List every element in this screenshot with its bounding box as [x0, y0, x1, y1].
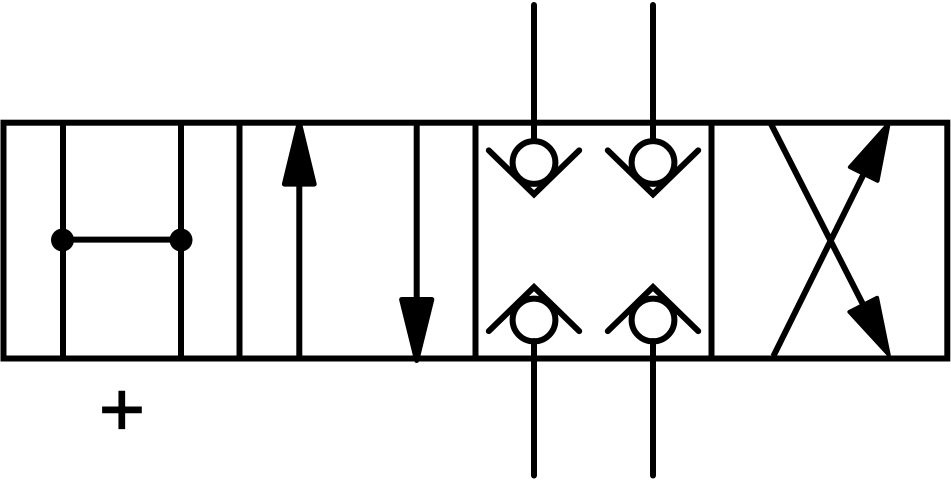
flow arrow down head: [402, 300, 432, 361]
check valve CV1 ball (top-left): [513, 141, 556, 184]
wire: position-1 right vertical path: [178, 123, 184, 359]
check valve CV4 ball (bottom-right): [632, 299, 675, 342]
check valve CV2 ball (top-right): [632, 141, 675, 184]
valve envelope (4-position body outline): [4, 123, 948, 359]
flow arrow up (position 2 left) shaft: [296, 184, 302, 359]
position divider 3: [709, 123, 715, 359]
wire: position-1 left vertical path: [60, 123, 66, 359]
crossed flow arrow A (position 4, up-right) shaft: [773, 174, 863, 356]
flow arrow up head: [284, 123, 314, 185]
crossed flow arrow A head: [850, 124, 889, 181]
pilot line bottom-left (port from check valve CV3): [531, 341, 537, 476]
check valve CV2 seat: [608, 150, 698, 194]
check valve CV1 seat: [489, 150, 579, 194]
junction dot left: [51, 229, 74, 252]
crossed flow arrow B head: [849, 298, 888, 355]
check valve CV3 ball (bottom-left): [513, 299, 556, 342]
junction dot right: [170, 229, 193, 252]
check valve CV3 seat: [489, 287, 579, 331]
pilot line top-left (port into check valve CV1): [531, 5, 537, 141]
pilot line bottom-right (port from check valve CV4): [650, 341, 656, 476]
crossed flow arrow B (position 4, down-right) shaft: [771, 123, 864, 305]
flow arrow down (position 2 right) shaft: [414, 123, 420, 300]
plus label (+) below position 1: [102, 391, 142, 429]
position divider 2: [473, 123, 479, 359]
position divider 1: [237, 123, 243, 359]
pilot line top-right (port into check valve CV2): [650, 5, 656, 141]
check valve CV4 seat: [608, 287, 698, 331]
wire: position-1 horizontal connector: [63, 237, 181, 243]
